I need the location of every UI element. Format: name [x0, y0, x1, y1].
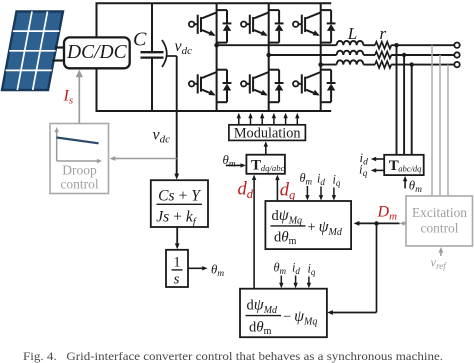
wire swing block to integrator — [176, 227, 178, 246]
node a junction — [214, 43, 219, 48]
svg-text:DC/DC: DC/DC — [66, 42, 128, 63]
wire c coil to resistor — [363, 64, 375, 66]
input arrows lower flux block — [281, 276, 309, 285]
gray arrow vref into excitation — [440, 251, 442, 257]
IGBT Q6 lower leg c — [293, 70, 336, 103]
wire Dm branch down — [376, 223, 378, 312]
integrator block 1/s — [166, 250, 188, 288]
IGBT Q2 lower leg a — [189, 70, 232, 103]
arrow i_q out of Tabcdq — [375, 169, 385, 171]
svg-text:Excitation: Excitation — [412, 205, 467, 220]
svg-text:Modulation: Modulation — [234, 125, 301, 141]
svg-text:Fig. 4. Grid-interface conve: Fig. 4. Grid-interface converter control… — [23, 351, 443, 363]
svg-text:T: T — [251, 158, 261, 174]
droop control block — [50, 124, 109, 194]
gray wire Is droop to DC/DC — [78, 74, 80, 124]
wire Dm to upper flux block — [357, 222, 400, 224]
svg-text:Droop: Droop — [62, 163, 97, 178]
svg-text:control: control — [60, 177, 98, 192]
DC/DC converter block — [64, 37, 130, 68]
tap wire a to Tabcdq — [396, 45, 398, 155]
modulation gate arrows — [239, 117, 297, 125]
droop curve — [57, 138, 99, 144]
gray tap a to excitation — [431, 45, 433, 196]
wire a coil to resistor — [363, 44, 375, 46]
swing equation block — [151, 180, 208, 228]
wire vdc sense down — [176, 56, 178, 176]
resistor ra — [375, 42, 391, 49]
leg a vertical wire — [216, 3, 218, 111]
wire a to terminal — [391, 44, 454, 46]
IGBT Q4 lower leg b — [241, 70, 283, 103]
excitation control block — [406, 196, 473, 246]
leg b vertical wire — [268, 3, 270, 111]
inductor Lb — [337, 51, 364, 55]
lower flux block dpsiMd — [240, 289, 327, 338]
leg c vertical wire — [320, 3, 322, 111]
phase a line — [217, 44, 337, 46]
gray Dm stub from excitation — [403, 222, 406, 224]
svg-text:C: C — [133, 29, 147, 51]
wire d_d from lower psi block to Tdqabc — [253, 179, 255, 289]
arrow i_d out of Tabcdq — [375, 158, 385, 160]
svg-text:Js + kf: Js + kf — [156, 209, 197, 229]
Tabcdq block — [384, 155, 424, 175]
upper flux block dpsiMq — [265, 201, 351, 249]
arrow theta_m into Tdqabc — [226, 164, 242, 166]
negative DC bus — [96, 110, 332, 112]
inductor La — [337, 41, 364, 45]
resistor rc — [375, 61, 391, 68]
gray wire vdc to droop control — [113, 158, 177, 160]
positive DC bus — [96, 2, 332, 4]
gray tap b to excitation — [439, 55, 441, 196]
wire Tdqabc to modulation — [265, 145, 267, 155]
tap junction b — [402, 53, 406, 57]
inductor Lc — [337, 60, 364, 64]
input arrows upper flux block — [307, 186, 334, 197]
terminal b — [454, 52, 459, 57]
svg-text:control: control — [421, 220, 459, 235]
IGBT Q1 upper leg a — [189, 10, 232, 43]
vdc sense brace — [162, 40, 167, 67]
node b junction — [266, 53, 271, 58]
gray tap c to excitation — [447, 65, 449, 196]
tap wire c to Tabcdq — [411, 65, 413, 155]
solar panel PV — [2, 12, 63, 91]
terminal c — [454, 62, 459, 67]
phase c line — [321, 64, 337, 66]
capacitor C — [141, 3, 164, 111]
node c junction — [318, 62, 323, 67]
wire DC/DC top to positive bus — [96, 3, 98, 37]
svg-text:r: r — [380, 24, 387, 43]
modulation block — [229, 125, 306, 142]
IGBT Q5 upper leg c — [293, 10, 336, 43]
wire c to terminal — [391, 64, 454, 66]
svg-text:abc/dq: abc/dq — [398, 163, 422, 173]
wire Dm branch to lower flux block — [331, 312, 377, 314]
phase b line — [269, 54, 337, 56]
arrow theta_m output — [188, 267, 204, 269]
svg-text:L: L — [347, 24, 357, 43]
wire DC/DC bottom to negative bus — [96, 68, 98, 111]
wire d_q from upper psi block to Tdqabc — [276, 179, 278, 202]
tap wire b to Tabcdq — [403, 55, 405, 155]
tap junction a — [394, 43, 398, 47]
svg-text:s: s — [174, 272, 180, 288]
IGBT Q3 upper leg b — [241, 10, 283, 43]
wire panel to DC/DC lower — [53, 59, 65, 61]
wire panel to DC/DC upper — [55, 46, 64, 48]
svg-text:dq/abc: dq/abc — [261, 163, 285, 173]
svg-text:1: 1 — [173, 255, 180, 271]
Dm junction — [374, 221, 378, 225]
svg-text:T: T — [389, 158, 399, 174]
resistor rb — [375, 52, 391, 59]
arrow theta_m into Tabcdq — [404, 179, 406, 188]
vdc sense tick — [167, 55, 177, 57]
tap junction c — [410, 62, 414, 66]
wire b to terminal — [391, 54, 454, 56]
Tdqabc block — [246, 155, 285, 174]
svg-text:Cs + Y: Cs + Y — [158, 188, 201, 205]
wire b coil to resistor — [363, 54, 375, 56]
terminal a — [454, 43, 459, 48]
